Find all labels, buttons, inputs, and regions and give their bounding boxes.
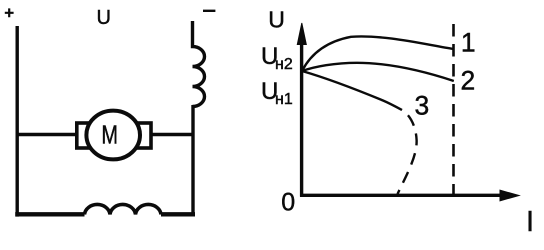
graph: I axis (horizontal) with arrow: [300, 190, 519, 201]
inductor L1 field winding (vertical coil): [193, 21, 205, 107]
svg-text:U: U: [268, 7, 285, 33]
svg-text:M: M: [101, 120, 118, 150]
graph: curve 2: [302, 63, 454, 81]
svg-text:2: 2: [461, 66, 476, 96]
graph: dashed vertical line (rated current): [452, 24, 455, 195]
svg-text:1: 1: [461, 28, 476, 58]
brush right: [136, 123, 152, 148]
svg-text:н2: н2: [275, 56, 293, 73]
+ terminal: [5, 8, 14, 17]
brush left: [77, 123, 92, 148]
graph: U axis (vertical) with arrow: [297, 23, 306, 197]
inductor L2 series winding (bottom coil): [85, 204, 162, 214]
svg-text:3: 3: [415, 91, 430, 121]
wire: bottom left segment: [15, 212, 84, 216]
wire: right vertical branch: [191, 105, 194, 215]
motor M1 armature circle: [86, 111, 140, 160]
wire: left vertical branch: [16, 26, 19, 217]
svg-text:U: U: [97, 7, 111, 29]
graph: curve 1: [302, 36, 454, 71]
wire: armature horizontal left: [16, 133, 77, 136]
− terminal: [203, 10, 215, 12]
wire: bottom right segment: [161, 212, 195, 216]
svg-text:н1: н1: [275, 91, 293, 108]
graph: curve 3 dashed part: [398, 110, 417, 194]
wire: armature horizontal right: [151, 133, 194, 136]
svg-text:I: I: [526, 206, 534, 238]
svg-text:0: 0: [281, 189, 295, 217]
graph: curve 3 solid part: [302, 71, 402, 110]
